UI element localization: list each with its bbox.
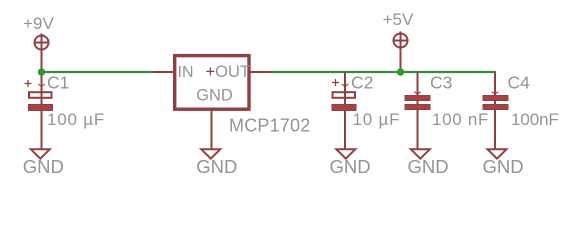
pin GND of U1 — [211, 110, 213, 150]
pin of C2 (top) — [344, 72, 346, 150]
value label MCP1702 — [229, 116, 310, 136]
capacitor C3 — [405, 72, 430, 150]
value label 10 µF — [353, 110, 401, 129]
svg-text:C4: C4 — [508, 73, 531, 93]
capacitor C2 — [332, 72, 356, 150]
value label 100 nF — [432, 110, 489, 129]
svg-text:C1: C1 — [47, 73, 69, 93]
svg-text:C3: C3 — [430, 73, 452, 93]
pin of C1 (top) — [41, 72, 43, 150]
wire net VIN (node to IC) — [42, 71, 153, 73]
voltage regulator U1 MCP1702 box — [175, 56, 249, 110]
ground symbol (U1) — [196, 149, 237, 177]
svg-text:C2: C2 — [351, 73, 373, 93]
svg-text:100nF: 100nF — [511, 110, 559, 129]
plus mark C2 — [332, 82, 339, 84]
svg-text:MCP1702: MCP1702 — [229, 116, 310, 136]
svg-text:+5V: +5V — [383, 10, 414, 29]
value label 100 µF — [47, 110, 105, 129]
plus mark C1 — [25, 83, 32, 85]
plate top (filled) C4 — [483, 96, 508, 101]
pin label +OUT — [206, 63, 250, 81]
pin arrow C1 — [38, 84, 45, 87]
pin arrow C3 — [414, 92, 421, 95]
ground symbol (C3) — [407, 149, 448, 177]
svg-text:GND: GND — [23, 156, 64, 177]
value label 100nF — [511, 110, 559, 129]
svg-text:100 nF: 100 nF — [432, 110, 489, 129]
pin label GND (inside box) — [196, 87, 233, 105]
name label C2 — [351, 73, 373, 93]
supply symbol +5V — [393, 32, 409, 50]
supply symbol +9V — [34, 34, 50, 52]
ground symbol (C2) — [329, 149, 370, 177]
plate bottom (filled) C3 — [405, 105, 430, 110]
capacitor C1 — [25, 72, 53, 150]
name label C1 — [47, 73, 69, 93]
svg-text:+9V: +9V — [23, 14, 54, 33]
ground symbol (C4) — [482, 149, 523, 177]
svg-text:IN: IN — [178, 64, 194, 81]
svg-text:GND: GND — [407, 156, 448, 177]
pin from +9V to node — [41, 50, 43, 73]
label +5V — [383, 10, 414, 29]
plate top (filled) C3 — [405, 96, 430, 101]
pin of C4 (top) — [494, 72, 496, 150]
ground symbol (C1) — [23, 149, 64, 177]
pin arrow C4 — [492, 92, 499, 95]
plate bottom (filled) C4 — [483, 105, 508, 110]
svg-text:GND: GND — [196, 87, 233, 105]
svg-text:GND: GND — [329, 156, 370, 177]
plate bottom (filled) C2 — [332, 105, 356, 111]
capacitor C4 — [483, 72, 508, 150]
pin OUT of U1 — [249, 71, 271, 73]
svg-text:GND: GND — [196, 156, 237, 177]
wire net VOUT (IC to C4) — [271, 71, 496, 73]
name label C4 — [508, 73, 531, 93]
svg-text:GND: GND — [482, 156, 523, 177]
junction node VIN — [38, 68, 45, 75]
svg-text:10 µF: 10 µF — [353, 110, 401, 129]
plate top (outlined) C2 — [333, 92, 356, 98]
pin arrow C2 — [342, 84, 349, 87]
plate bottom (filled) C1 — [29, 105, 53, 111]
pin from +5V to node — [400, 48, 402, 73]
pin of C3 (top) — [417, 72, 419, 150]
svg-text:+OUT: +OUT — [206, 63, 250, 81]
plate top (outlined) C1 — [29, 92, 52, 98]
junction node VOUT — [397, 68, 404, 75]
label +9V — [23, 14, 54, 33]
pin label IN — [178, 64, 194, 81]
pin IN of U1 — [152, 71, 176, 73]
svg-text:100 µF: 100 µF — [47, 110, 105, 129]
name label C3 — [430, 73, 452, 93]
